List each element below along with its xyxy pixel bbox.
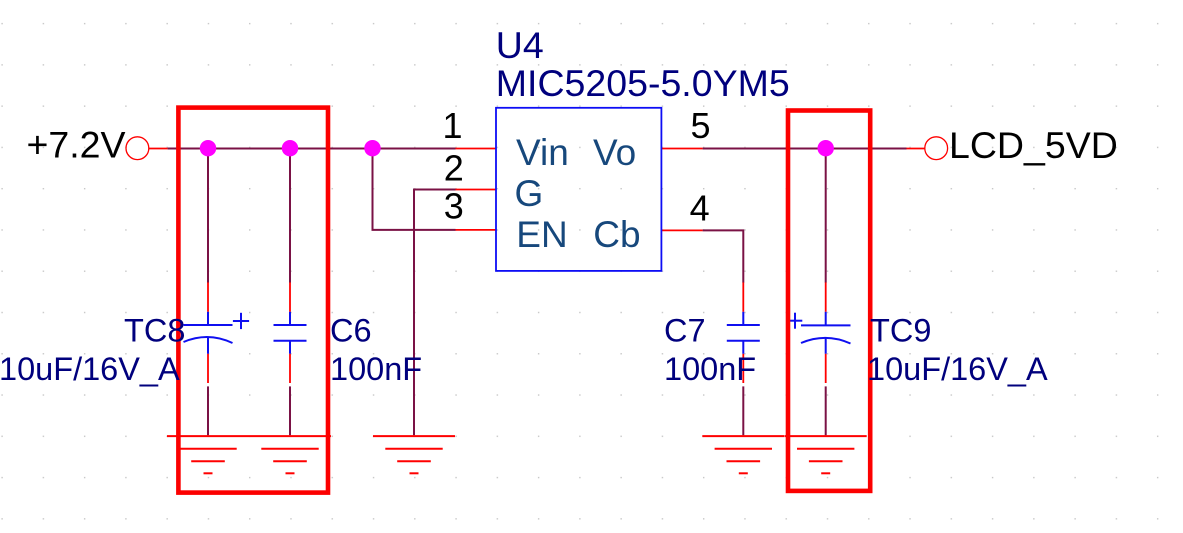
- svg-text:MIC5205-5.0YM5: MIC5205-5.0YM5: [496, 62, 790, 104]
- capacitor TC8 pins: [207, 282, 209, 383]
- svg-text:TC9: TC9: [870, 313, 931, 349]
- junction node dot at TC8: [200, 140, 216, 156]
- capacitor C7 pins: [742, 282, 744, 383]
- port pin stub +7.2V: [149, 148, 168, 150]
- svg-text:4: 4: [690, 188, 710, 229]
- wire TC8 bottom to ground: [207, 386, 209, 435]
- svg-text:Vin: Vin: [516, 132, 569, 173]
- svg-text:10uF/16V_A: 10uF/16V_A: [0, 351, 180, 387]
- svg-text:C6: C6: [330, 313, 372, 349]
- svg-text:LCD_5VD: LCD_5VD: [949, 124, 1118, 166]
- pin 2 stub: [456, 189, 497, 191]
- ground symbol under C6: [249, 436, 331, 473]
- pin 1 stub: [456, 148, 497, 150]
- port pin stub LCD_5VD: [907, 148, 925, 150]
- svg-text:2: 2: [444, 148, 464, 189]
- svg-text:C7: C7: [664, 313, 706, 349]
- port terminal circle +7.2V: [126, 137, 149, 160]
- junction node dot at C6: [282, 140, 298, 156]
- svg-text:Vo: Vo: [593, 132, 636, 173]
- svg-text:U4: U4: [496, 24, 544, 66]
- pin 3 stub: [456, 229, 497, 231]
- port terminal circle LCD_5VD: [925, 137, 948, 160]
- svg-text:5: 5: [690, 105, 710, 146]
- svg-text:10uF/16V_A: 10uF/16V_A: [867, 351, 1048, 387]
- wire G pin to ground: [414, 190, 456, 436]
- highlight rectangle around TC9: [788, 111, 870, 491]
- junction node dot at TC9: [818, 140, 834, 156]
- svg-text:100nF: 100nF: [330, 351, 422, 387]
- capacitor C7 symbol: [727, 312, 760, 354]
- svg-text:TC8: TC8: [124, 313, 185, 349]
- wire EN route (node to pin 3): [373, 148, 456, 230]
- capacitor TC9 symbol: [788, 312, 851, 354]
- svg-text:1: 1: [442, 105, 462, 146]
- svg-text:100nF: 100nF: [664, 351, 756, 387]
- svg-text:3: 3: [444, 185, 464, 226]
- svg-text:EN: EN: [516, 214, 567, 255]
- capacitor TC9 pins: [825, 282, 827, 383]
- wire C7 bottom to ground: [742, 386, 744, 435]
- ground symbol under G wire: [373, 436, 455, 473]
- wire Cb route (pin 4 to C7): [703, 230, 744, 282]
- wire output rail: [703, 148, 907, 150]
- pin 4 stub: [661, 229, 702, 231]
- wire main input rail: [168, 148, 456, 150]
- highlight rectangle around TC8/C6: [178, 108, 328, 493]
- ground symbol under TC8: [167, 436, 249, 473]
- capacitor TC8 symbol: [184, 312, 250, 354]
- junction node dot at EN branch: [364, 140, 380, 156]
- ground symbol under TC9: [785, 436, 867, 473]
- wire TC9 top drop: [825, 148, 827, 283]
- svg-text:Cb: Cb: [593, 214, 640, 255]
- pin 5 stub: [661, 148, 702, 150]
- wire TC9 bottom to ground: [825, 386, 827, 435]
- ground symbol under C7: [702, 436, 784, 473]
- svg-text:G: G: [515, 173, 544, 214]
- capacitor C6 symbol: [274, 312, 307, 354]
- wire C6 top drop: [289, 148, 291, 283]
- op-amp U1 box: regulator U4 body: [496, 108, 661, 271]
- wire TC8 top drop: [207, 148, 209, 283]
- capacitor C6 pins: [289, 282, 291, 383]
- svg-text:+7.2V: +7.2V: [27, 123, 126, 165]
- wire C6 bottom to ground: [289, 386, 291, 435]
